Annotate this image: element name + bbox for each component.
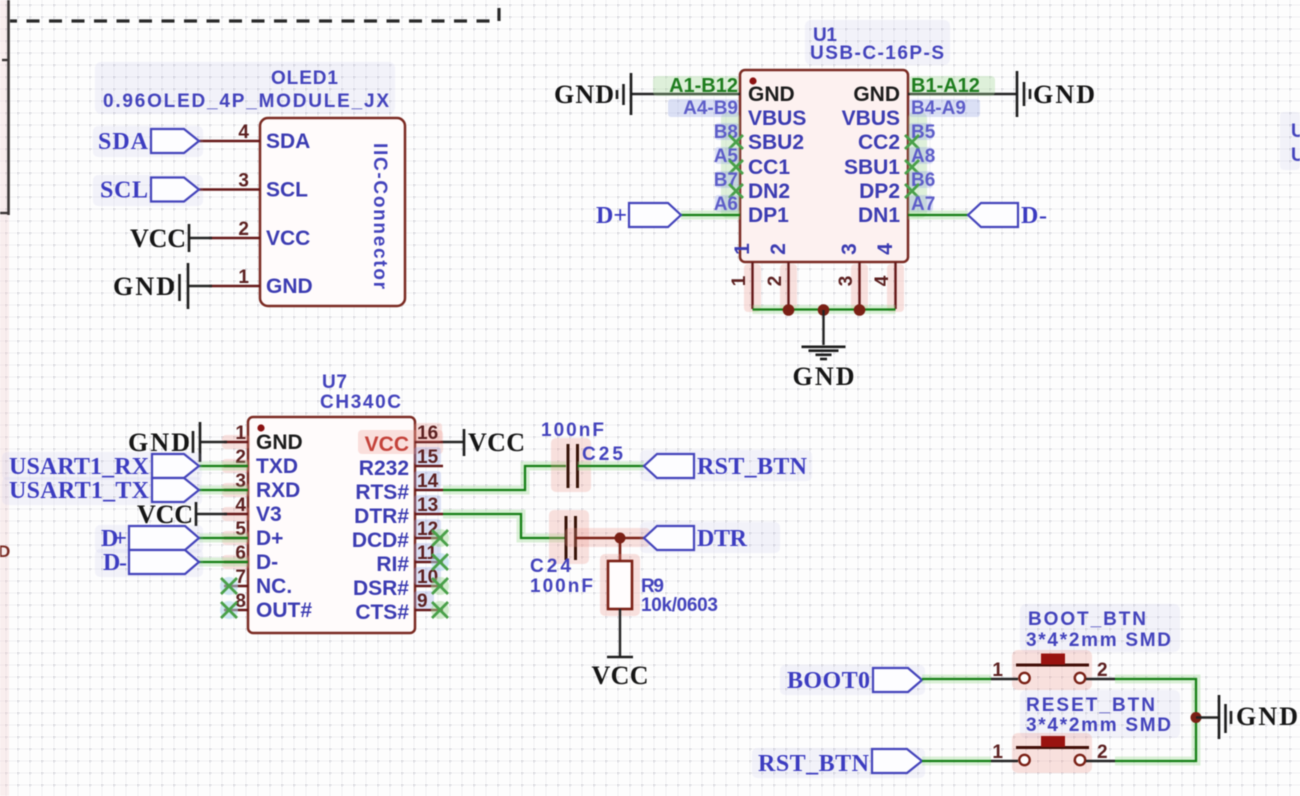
- svg-text:2: 2: [765, 276, 786, 287]
- wire D+ to U1: [681, 211, 740, 220]
- svg-text:B4-A9: B4-A9: [911, 98, 966, 119]
- svg-text:2: 2: [1097, 660, 1108, 681]
- junction dot DTR/R9: [615, 533, 626, 544]
- net flag VCC at U7 pin 4: [196, 513, 227, 515]
- net label A1-B12 on U1 pin A1-B12: [653, 76, 739, 96]
- net flag GND at U7 pin 1: [200, 441, 227, 443]
- pin number B7 of U1: [715, 171, 739, 188]
- port SCL: [93, 175, 203, 206]
- switch BOOT_BTN pin 1 contact circle: [1019, 673, 1029, 683]
- switch RESET_BTN highlight: [1012, 733, 1092, 773]
- svg-text:SBU1: SBU1: [844, 156, 900, 179]
- port USART1_RX: [2, 452, 202, 480]
- svg-text:GND: GND: [113, 272, 175, 301]
- svg-text:RST_BTN: RST_BTN: [697, 454, 808, 480]
- switch RESET_BTN pin 1 lead: [991, 760, 1018, 762]
- connector OLED1 halo: [95, 62, 395, 114]
- svg-text:4: 4: [235, 495, 246, 516]
- connector OLED1 body: [260, 118, 405, 306]
- svg-text:D-: D-: [256, 551, 278, 574]
- wire D- to U7 pin 6: [199, 558, 248, 567]
- no-connect X on U7 pin 9: [431, 601, 449, 619]
- svg-text:GND: GND: [793, 362, 855, 391]
- sheet border tick y60: [2, 59, 9, 61]
- U1 right unconnected pin highlight band: [908, 112, 927, 218]
- resistor R9: [608, 561, 632, 609]
- port DTR: [640, 522, 780, 553]
- U7 right pin numbers: [414, 423, 442, 442]
- svg-text:DP2: DP2: [859, 180, 900, 203]
- ic U7 body: [248, 417, 415, 633]
- svg-text:D-: D-: [103, 550, 127, 576]
- svg-text:14: 14: [417, 471, 439, 492]
- net flag GND right of buttons: [1218, 695, 1221, 739]
- no-connect X on U7 pin 7: [220, 577, 238, 595]
- switch RESET_BTN pin 1 contact circle: [1019, 755, 1029, 765]
- net flag VCC at OLED1 pin 2: [189, 237, 212, 239]
- svg-text:3: 3: [836, 276, 857, 287]
- wire C24 to DTR (highlighted red): [565, 528, 650, 547]
- svg-text:1: 1: [992, 660, 1003, 681]
- svg-text:D+: D+: [101, 526, 127, 552]
- switch RESET_BTN actuator: [1041, 736, 1065, 747]
- svg-text:IIC-Connector: IIC-Connector: [369, 143, 390, 290]
- net label B1-A12 on U1 pin B1-A12: [909, 76, 995, 96]
- svg-text:OLED1: OLED1: [271, 68, 338, 89]
- svg-text:2: 2: [1097, 742, 1108, 763]
- pin 1 GND of OLED1: [209, 285, 260, 287]
- svg-text:CC1: CC1: [748, 156, 790, 179]
- wire D+ to U7 pin 5: [199, 534, 248, 543]
- sheet border tick y213: [0, 212, 9, 214]
- svg-text:R9: R9: [641, 576, 664, 597]
- pin 3 SCL of OLED1: [199, 188, 260, 190]
- wire USART1_TX to U7 pin 3: [199, 486, 248, 495]
- svg-text:SCL: SCL: [100, 178, 148, 204]
- net flag GND right of U1: [908, 93, 1017, 95]
- svg-text:U7: U7: [322, 372, 347, 393]
- svg-text:VBUS: VBUS: [748, 107, 806, 130]
- pin 4 SDA of OLED1: [199, 140, 260, 142]
- svg-text:SDA: SDA: [266, 130, 310, 153]
- svg-text:R232: R232: [359, 457, 409, 480]
- wire U1 bottom bus: [753, 305, 896, 314]
- svg-text:4: 4: [238, 122, 249, 143]
- svg-text:U: U: [1291, 145, 1300, 166]
- svg-text:OUT#: OUT#: [256, 599, 312, 622]
- svg-text:GND: GND: [1236, 702, 1298, 731]
- clipped reference label at right edge: [1280, 112, 1300, 170]
- wire U7 pin 14 to C25: [443, 466, 566, 490]
- svg-text:2: 2: [767, 243, 790, 255]
- svg-text:4: 4: [872, 275, 893, 286]
- pin number A7 of U1: [909, 195, 933, 212]
- U7 left pin stub highlights: [222, 435, 250, 449]
- sheet border left vertical line: [7, 0, 10, 215]
- wire R9 to VCC: [619, 609, 621, 657]
- no-connect X on U7 pin 11: [431, 553, 449, 571]
- svg-text:3: 3: [838, 243, 861, 255]
- svg-text:4: 4: [874, 243, 897, 255]
- pin number A8 of U1: [909, 147, 933, 164]
- svg-text:D-: D-: [1021, 203, 1047, 229]
- svg-text:BOOT0: BOOT0: [787, 668, 870, 694]
- junction dot U1 pin2: [783, 304, 795, 316]
- switch BOOT_BTN pin 2 contact circle: [1075, 673, 1085, 683]
- U1 left unconnected pin highlight band: [721, 112, 740, 218]
- switch BOOT_BTN actuator: [1041, 654, 1065, 665]
- svg-text:VCC: VCC: [468, 428, 525, 457]
- svg-text:9: 9: [417, 591, 428, 612]
- net flag VCC at U7 pin 16: [443, 441, 464, 443]
- port SDA: [93, 126, 203, 157]
- svg-text:DTR: DTR: [697, 526, 748, 552]
- svg-text:DSR#: DSR#: [353, 577, 409, 600]
- svg-text:100nF: 100nF: [541, 420, 604, 441]
- svg-text:DP1: DP1: [748, 204, 789, 227]
- svg-text:U: U: [1291, 121, 1300, 142]
- port USART1_TX: [2, 477, 202, 505]
- svg-text:A4-B9: A4-B9: [683, 98, 738, 119]
- svg-text:C24: C24: [530, 556, 571, 577]
- ground symbol below U1: [802, 345, 846, 348]
- svg-text:CTS#: CTS#: [355, 601, 409, 624]
- no-connect X on U1 pin A5: [729, 160, 743, 174]
- switch BOOT_BTN pin 1 lead: [991, 678, 1018, 680]
- svg-text:GND: GND: [748, 83, 795, 106]
- no-connect X on U1 pin B7: [729, 184, 743, 198]
- ic U7 pin1 dot: [257, 424, 264, 431]
- pin number B8 of U1: [715, 123, 739, 140]
- svg-text:1: 1: [992, 742, 1003, 763]
- svg-text:DCD#: DCD#: [352, 529, 409, 552]
- svg-text:VCC: VCC: [130, 224, 186, 253]
- pin number A5 of U1: [715, 147, 739, 164]
- svg-text:16: 16: [417, 423, 438, 444]
- no-connect X on U7 pin 12: [431, 529, 449, 547]
- port D-: [968, 203, 1018, 227]
- usb connector U1 reference label: [805, 20, 950, 65]
- switch RESET_BTN pin 2 lead: [1086, 760, 1115, 762]
- U7 right pin stubs 16-9: [415, 441, 443, 443]
- svg-text:USART1_RX: USART1_RX: [9, 454, 150, 480]
- no-connect X on U1 pin B8: [729, 135, 743, 149]
- svg-text:GND: GND: [1033, 80, 1095, 109]
- port D+ at U7: [95, 525, 203, 553]
- svg-text:DN1: DN1: [858, 204, 900, 227]
- no-connect X on U1 pin A8: [905, 160, 919, 174]
- pin number A6 of U1: [715, 195, 739, 212]
- svg-text:2: 2: [238, 219, 249, 240]
- switch BOOT_BTN bar: [1016, 664, 1089, 667]
- usb connector U1 pin1 dot: [749, 77, 756, 84]
- svg-text:D+: D+: [596, 203, 627, 229]
- wire BOOT0 to BOOT_BTN pin 1: [922, 675, 991, 684]
- wire BOOT_BTN pin2 to GND bus: [1115, 679, 1196, 761]
- usb connector U1 body: [740, 70, 908, 262]
- wire RST_BTN to RESET_BTN pin 1: [922, 757, 991, 766]
- svg-text:BOOT_BTN: BOOT_BTN: [1028, 609, 1146, 630]
- svg-text:V3: V3: [256, 503, 282, 526]
- svg-text:SCL: SCL: [266, 179, 308, 202]
- switch RESET_BTN pin 2 contact circle: [1075, 755, 1085, 765]
- wire U1 to ground: [822, 310, 824, 345]
- wire C25 to RST_BTN: [578, 462, 645, 471]
- switch RESET_BTN bar: [1016, 746, 1089, 749]
- svg-text:NC.: NC.: [256, 575, 292, 598]
- svg-text:1: 1: [238, 267, 249, 288]
- wire junction to R9: [619, 538, 622, 561]
- switch BOOT_BTN pin 2 lead: [1086, 678, 1115, 680]
- no-connect X on U1 pin B6: [905, 184, 919, 198]
- svg-text:100nF: 100nF: [530, 576, 593, 597]
- svg-text:D+: D+: [256, 527, 283, 550]
- wire U1 to D-: [908, 211, 968, 220]
- svg-text:VCC: VCC: [137, 500, 193, 529]
- svg-text:D: D: [0, 542, 10, 561]
- svg-text:DTR#: DTR#: [354, 505, 409, 528]
- svg-text:DN2: DN2: [748, 180, 790, 203]
- switch BOOT_BTN highlight: [1012, 650, 1092, 690]
- pin number A4-B9 of U1: [668, 99, 739, 117]
- svg-text:VCC: VCC: [592, 661, 649, 690]
- pin number B4-A9 of U1: [909, 99, 980, 117]
- port BOOT0: [780, 665, 925, 695]
- svg-text:GND: GND: [853, 83, 900, 106]
- dashed selection rectangle corner: [10, 0, 499, 21]
- junction dot U1 center: [818, 304, 830, 316]
- resistor R9 highlight: [600, 554, 640, 616]
- net flag GND left of U1: [631, 93, 740, 95]
- U7 left pin stubs 1-8: [224, 441, 248, 443]
- svg-text:A1-B12: A1-B12: [669, 75, 738, 97]
- wire junction to GND flag: [1196, 716, 1219, 718]
- svg-text:USB-C-16P-S: USB-C-16P-S: [810, 43, 944, 64]
- svg-text:USART1_TX: USART1_TX: [9, 478, 150, 504]
- port RST_BTN: [640, 450, 812, 481]
- svg-text:15: 15: [417, 447, 439, 468]
- pin number B6 of U1: [909, 171, 933, 188]
- svg-text:RST_BTN: RST_BTN: [758, 751, 870, 777]
- svg-text:B1-A12: B1-A12: [911, 75, 980, 97]
- svg-text:RTS#: RTS#: [355, 481, 409, 504]
- switch RESET_BTN reference label: [1020, 690, 1180, 738]
- no-connect X on U7 pin 8: [220, 601, 238, 619]
- svg-text:1: 1: [729, 275, 750, 286]
- pin number B5 of U1: [909, 123, 933, 140]
- capacitor C25: [567, 444, 570, 488]
- svg-text:1: 1: [731, 243, 754, 255]
- switch BOOT_BTN reference label: [1020, 604, 1180, 652]
- capacitor C24: [565, 516, 568, 560]
- svg-text:RXD: RXD: [256, 479, 300, 502]
- svg-text:SBU2: SBU2: [748, 131, 804, 154]
- capacitor C25 highlight: [551, 438, 591, 492]
- port RST_BTN (bottom): [752, 748, 925, 778]
- net flag GND at OLED1 pin 1: [188, 285, 212, 287]
- pin 2 VCC of OLED1: [209, 237, 260, 239]
- junction dot U1 pin3: [854, 304, 866, 316]
- svg-text:3: 3: [238, 171, 249, 192]
- svg-text:GND: GND: [256, 431, 303, 454]
- svg-text:GND: GND: [554, 80, 614, 109]
- svg-text:13: 13: [417, 495, 438, 516]
- svg-text:RESET_BTN: RESET_BTN: [1026, 695, 1155, 716]
- svg-text:TXD: TXD: [256, 455, 298, 478]
- U7 right pin names: [358, 430, 443, 454]
- U1 bottom pin stubs: [744, 264, 761, 312]
- net flag VCC below R9: [607, 656, 633, 659]
- no-connect X on U1 pin B5: [905, 135, 919, 149]
- svg-text:CC2: CC2: [858, 131, 900, 154]
- svg-text:10k/0603: 10k/0603: [641, 595, 718, 616]
- wire USART1_RX to U7 pin 2: [199, 462, 248, 471]
- svg-text:VCC: VCC: [365, 433, 409, 456]
- svg-text:GND: GND: [266, 275, 313, 298]
- capacitor C24 highlight: [549, 510, 589, 564]
- junction dot GND bus: [1191, 712, 1202, 723]
- svg-text:CH340C: CH340C: [320, 392, 401, 413]
- svg-text:1: 1: [235, 423, 246, 444]
- port D- at U7: [95, 549, 203, 577]
- svg-text:VBUS: VBUS: [842, 107, 900, 130]
- wire U7 pin 13 to C24: [443, 514, 565, 538]
- svg-text:RI#: RI#: [376, 553, 409, 576]
- no-connect X on U7 pin 10: [431, 577, 449, 595]
- svg-text:VCC: VCC: [266, 227, 310, 250]
- svg-text:SDA: SDA: [98, 129, 149, 155]
